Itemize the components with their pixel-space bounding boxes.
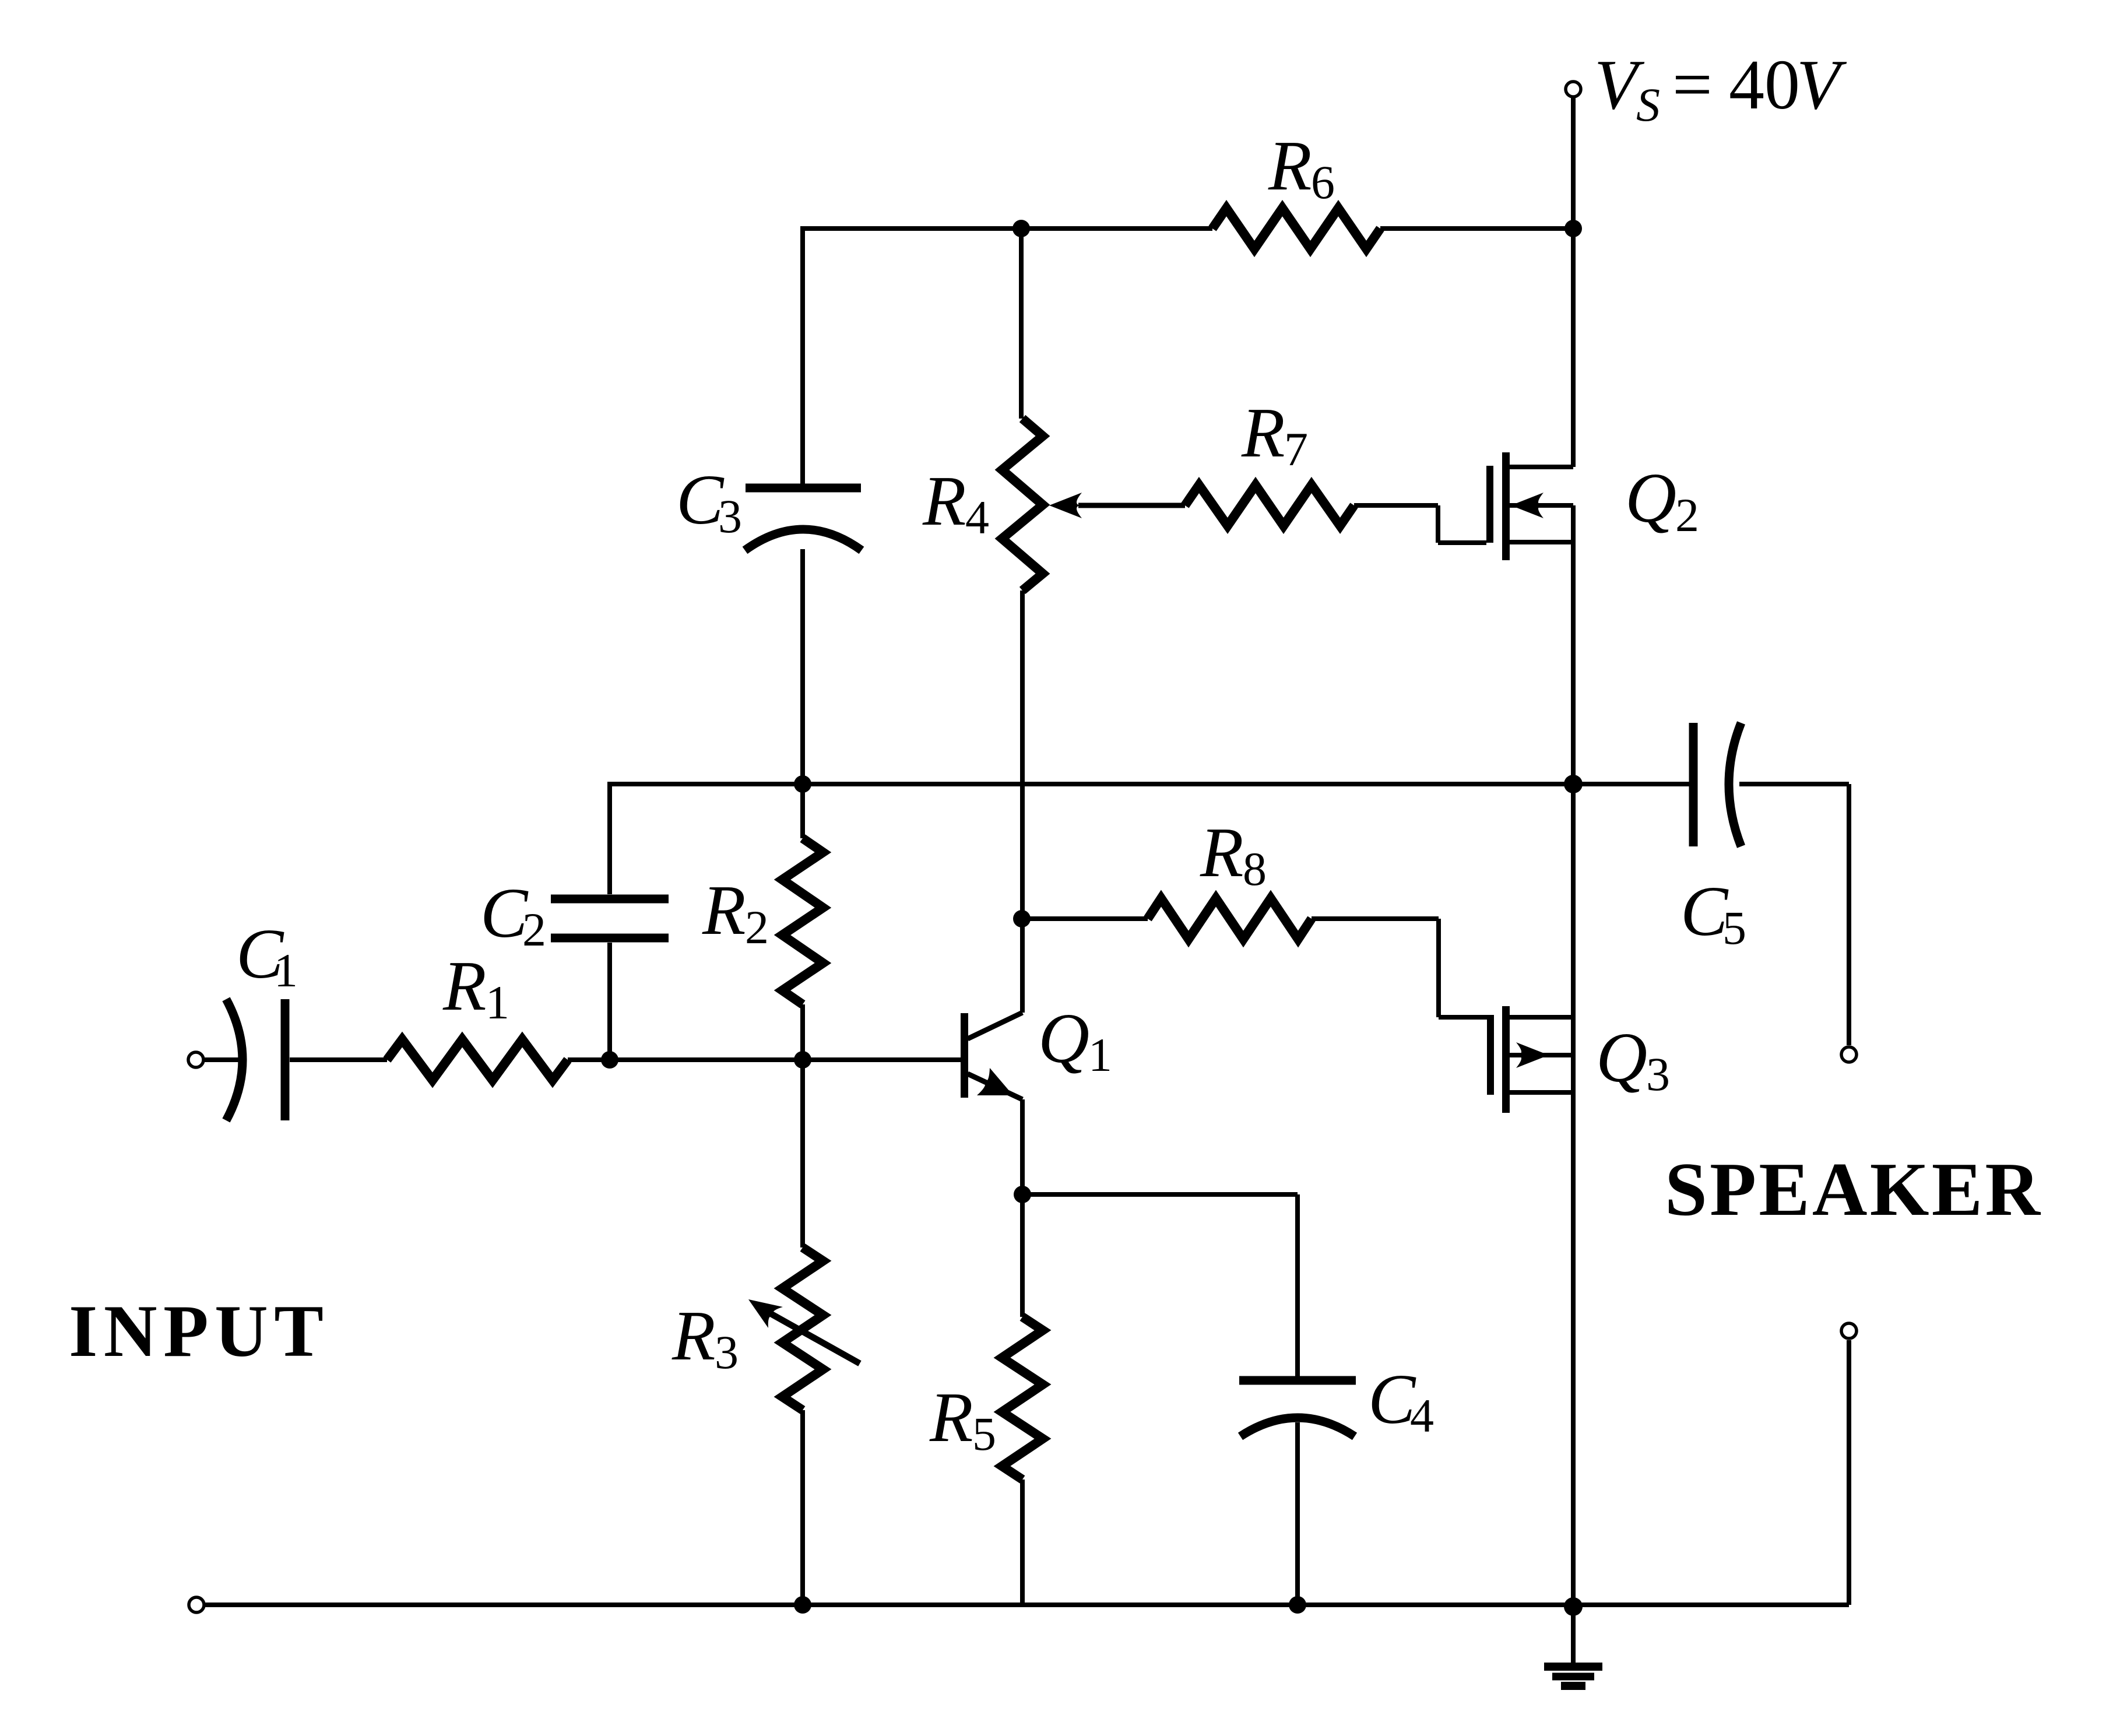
svg-text:8: 8 <box>1243 842 1267 895</box>
wire Q2 gate lead <box>1436 505 1440 543</box>
wire VS rail <box>1571 98 1576 229</box>
wire emitter to C4 <box>1022 1192 1298 1197</box>
node C4 bottom junction <box>1289 1596 1306 1614</box>
node R8 junction <box>1013 910 1031 927</box>
resistor R4 <box>1019 229 1024 419</box>
svg-text:Q: Q <box>1625 459 1676 537</box>
capacitor C4 <box>1239 1376 1356 1385</box>
transistor Q2 <box>1486 466 1493 543</box>
arrow R3 wiper <box>767 1312 860 1364</box>
svg-text:R: R <box>922 462 966 540</box>
wire Q2 source to output <box>1571 542 1576 784</box>
svg-text:V: V <box>1796 45 1847 124</box>
resistor R8 <box>1022 916 1148 921</box>
capacitor C2 <box>607 784 612 894</box>
svg-text:R: R <box>1200 813 1244 892</box>
wire base to Q1 <box>803 1057 961 1062</box>
resistor R7 <box>1185 485 1354 526</box>
svg-text:2: 2 <box>522 903 546 956</box>
wire Q3 gate lead <box>1436 919 1441 1017</box>
terminal speaker top <box>1841 1047 1857 1062</box>
svg-text:5: 5 <box>972 1407 996 1460</box>
node emitter junction <box>1014 1186 1031 1203</box>
wire top rail right <box>1021 226 1212 231</box>
resistor R5 <box>1020 1194 1025 1317</box>
svg-text:S: S <box>1636 78 1660 131</box>
capacitor C5 <box>1573 782 1689 786</box>
wire bottom rail <box>205 1603 1849 1607</box>
svg-text:C: C <box>676 461 725 539</box>
arrow R4 wiper <box>1049 493 1082 518</box>
transistor Q3 <box>1487 1015 1494 1095</box>
svg-text:R: R <box>442 947 487 1025</box>
svg-text:2: 2 <box>1675 489 1699 542</box>
svg-text:R: R <box>1268 126 1312 205</box>
node C3/R2 junction <box>794 775 811 793</box>
resistor R6 <box>1212 208 1380 249</box>
terminal VS <box>1566 82 1581 97</box>
svg-text:Q: Q <box>1038 999 1089 1078</box>
node B junction <box>794 1051 811 1069</box>
node A junction <box>601 1051 618 1069</box>
resistor R1 <box>387 1039 568 1080</box>
node output rail junction <box>1564 775 1583 793</box>
ground <box>1571 1607 1576 1663</box>
svg-text:5: 5 <box>1722 901 1746 954</box>
svg-text:INPUT: INPUT <box>69 1291 324 1372</box>
node R3 bottom junction <box>794 1596 811 1614</box>
node R4 top junction <box>1012 220 1030 237</box>
input terminal <box>188 1052 203 1067</box>
svg-text:=: = <box>1672 45 1713 124</box>
svg-text:R: R <box>1241 393 1285 472</box>
svg-text:R: R <box>929 1378 973 1457</box>
node VS/R6 junction <box>1564 220 1582 237</box>
svg-text:6: 6 <box>1311 156 1335 209</box>
resistor R2 <box>800 784 805 838</box>
capacitor C1 <box>226 999 242 1120</box>
svg-text:3: 3 <box>715 1326 739 1379</box>
svg-text:Q: Q <box>1596 1018 1647 1097</box>
svg-text:7: 7 <box>1284 423 1308 476</box>
svg-text:4: 4 <box>965 491 989 544</box>
svg-text:1: 1 <box>1088 1028 1112 1081</box>
wire base node <box>610 1057 803 1062</box>
svg-text:1: 1 <box>486 976 509 1029</box>
resistor R3 <box>800 1060 805 1247</box>
wire speaker bottom <box>1847 1340 1851 1605</box>
svg-text:40: 40 <box>1729 45 1800 124</box>
terminal input ground <box>189 1597 204 1612</box>
capacitor C3 <box>800 229 805 484</box>
svg-text:1: 1 <box>274 944 298 997</box>
svg-text:2: 2 <box>745 901 769 954</box>
svg-text:R: R <box>671 1296 716 1375</box>
svg-text:3: 3 <box>1646 1048 1670 1101</box>
svg-text:C: C <box>1368 1360 1416 1439</box>
svg-text:R: R <box>702 871 746 950</box>
terminal speaker bottom <box>1841 1323 1857 1338</box>
svg-text:3: 3 <box>718 490 742 543</box>
node ground junction <box>1564 1597 1583 1616</box>
wire top rail <box>800 226 1021 231</box>
wire output rail <box>607 782 612 786</box>
wire right rail <box>1571 784 1576 1607</box>
svg-text:SPEAKER: SPEAKER <box>1665 1147 2041 1232</box>
svg-text:4: 4 <box>1410 1389 1434 1442</box>
svg-text:C: C <box>1680 872 1729 951</box>
transistor Q1 <box>961 1013 968 1098</box>
svg-text:C: C <box>480 874 529 953</box>
